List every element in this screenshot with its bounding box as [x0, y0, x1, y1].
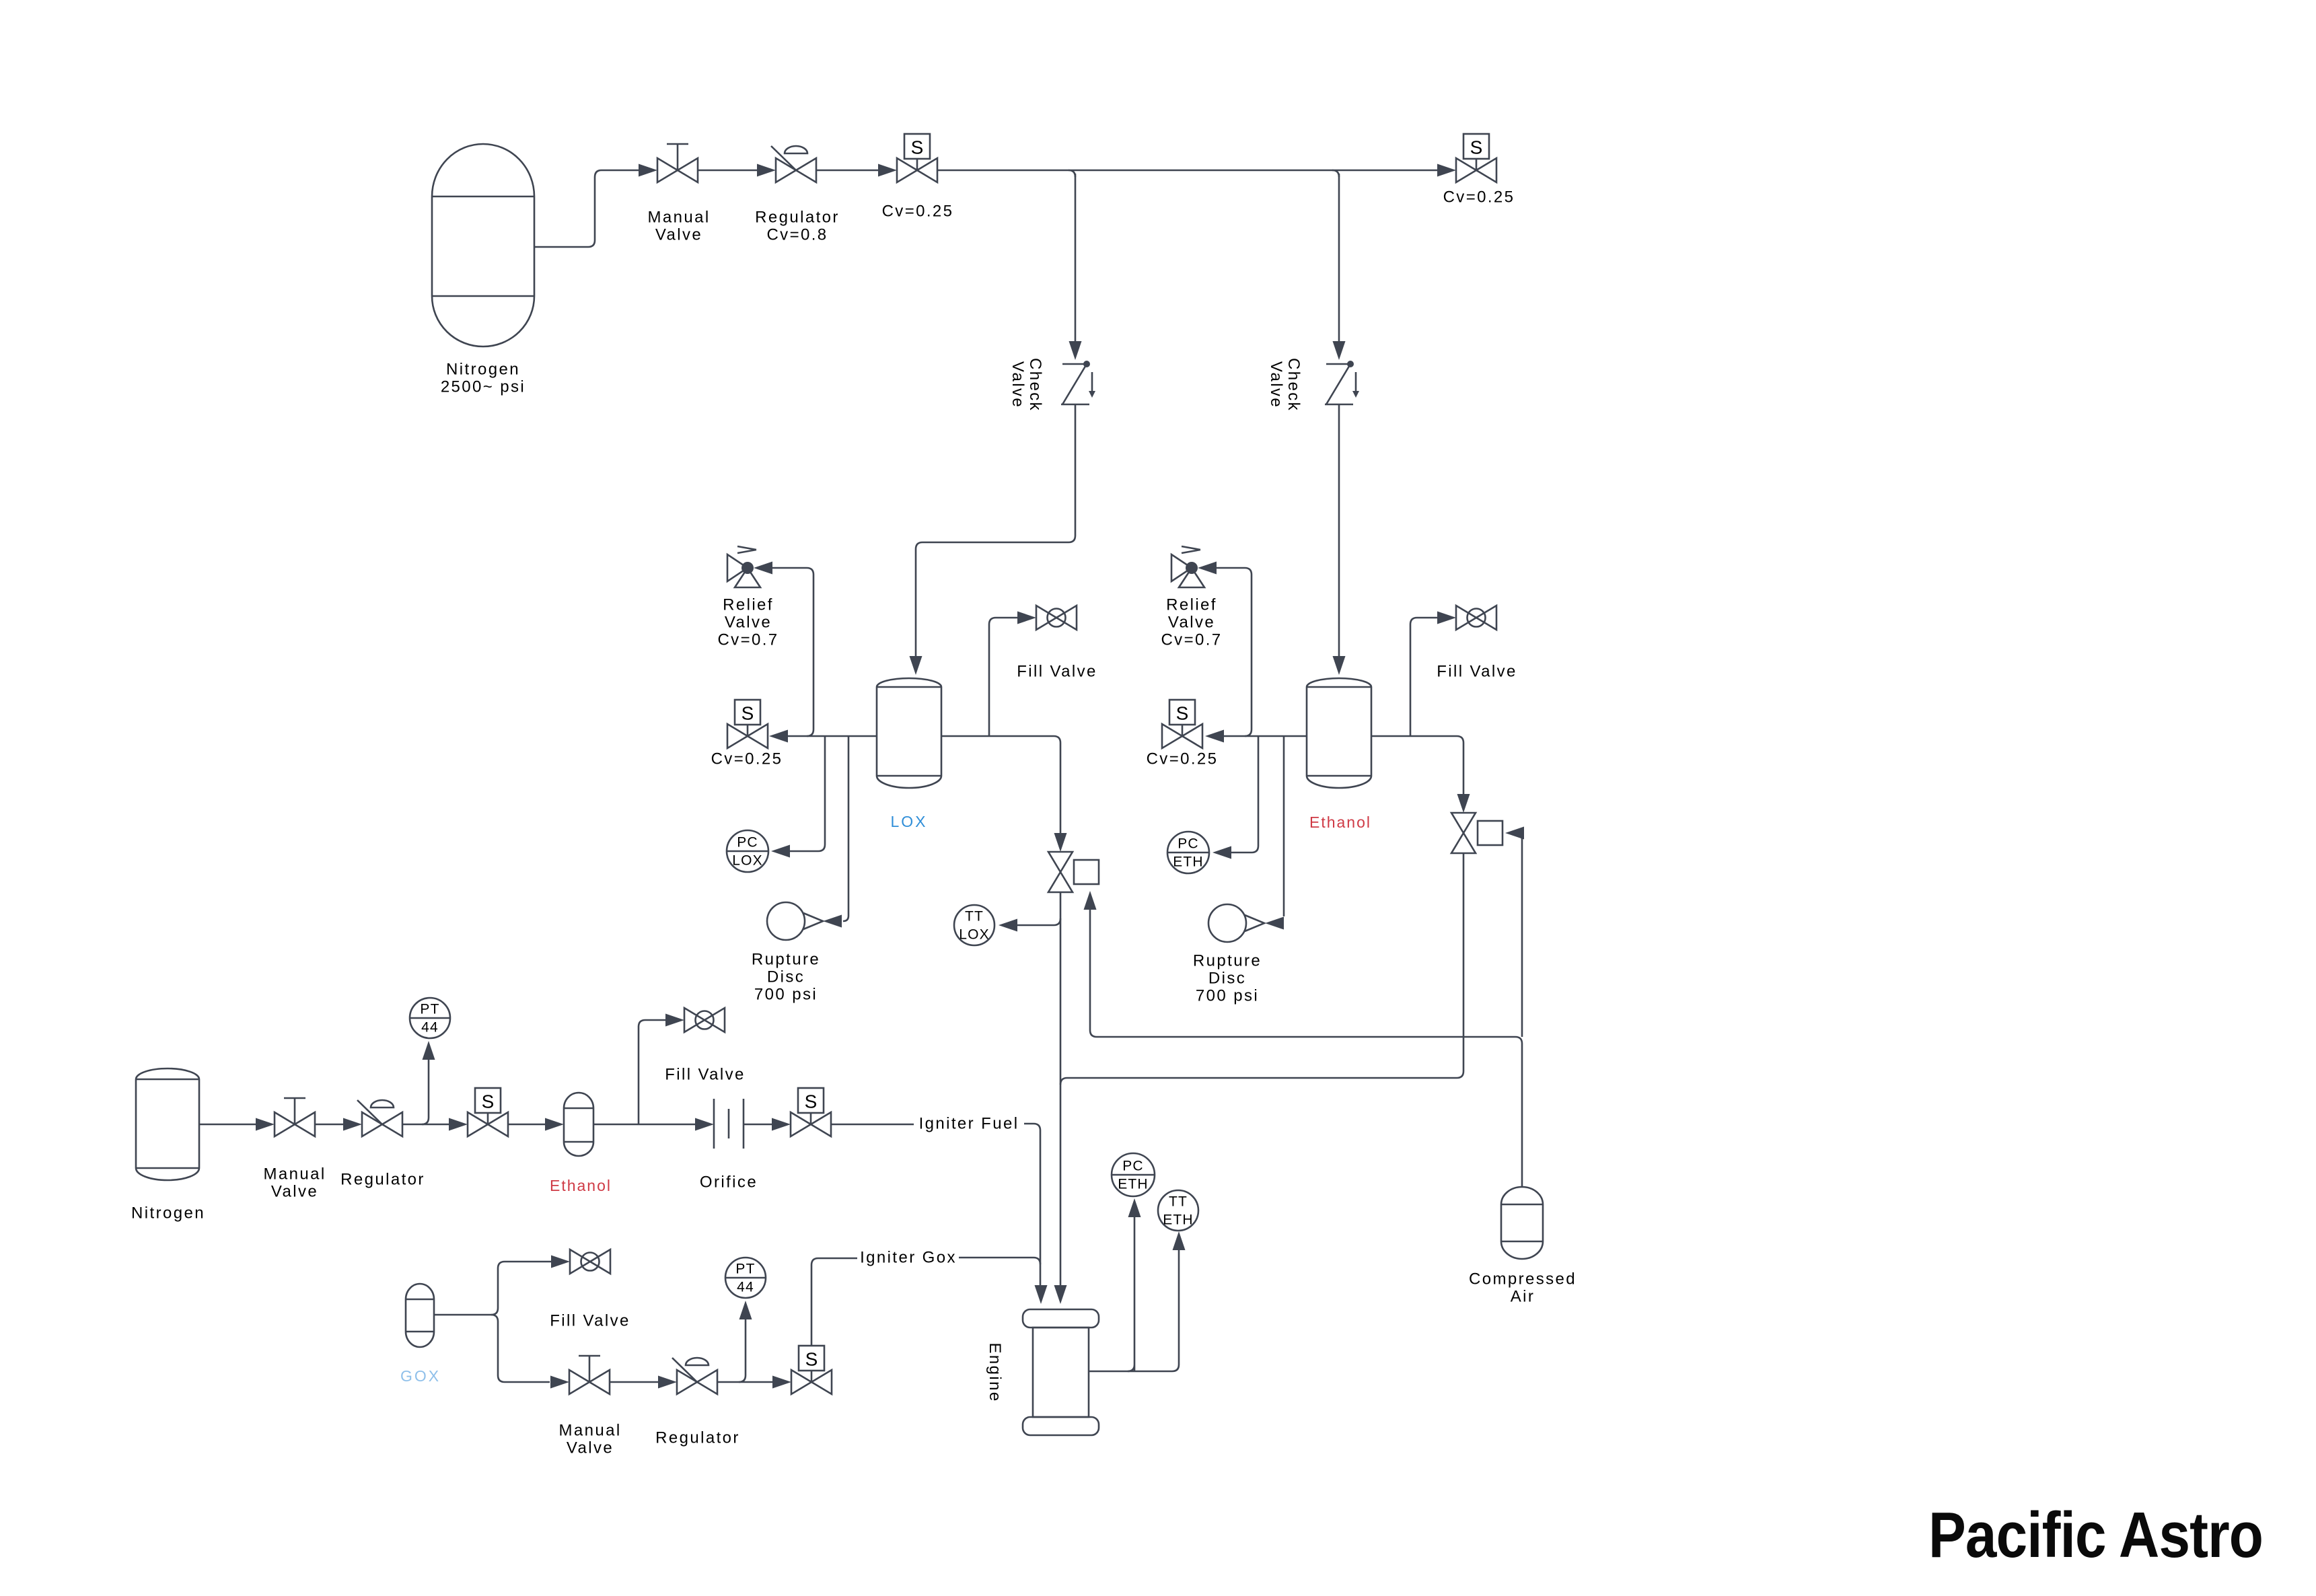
svg-text:Cv=0.8: Cv=0.8 — [766, 226, 828, 244]
svg-text:Valve: Valve — [725, 614, 772, 632]
svg-text:Nitrogen: Nitrogen — [131, 1204, 205, 1223]
svg-text:700 psi: 700 psi — [1196, 987, 1259, 1005]
svg-text:Cv=0.7: Cv=0.7 — [1161, 631, 1222, 649]
svg-text:S: S — [805, 1349, 818, 1370]
svg-text:Valve: Valve — [655, 226, 702, 244]
svg-text:PT: PT — [420, 1002, 439, 1017]
svg-text:Manual: Manual — [558, 1422, 621, 1440]
svg-text:44: 44 — [421, 1020, 439, 1036]
svg-text:Disc: Disc — [1208, 970, 1246, 988]
svg-text:TT: TT — [1169, 1194, 1188, 1210]
svg-text:44: 44 — [737, 1280, 754, 1295]
svg-text:Regulator: Regulator — [340, 1171, 425, 1189]
svg-text:Valve: Valve — [271, 1183, 318, 1201]
svg-text:Relief: Relief — [723, 596, 774, 614]
svg-text:Disc: Disc — [767, 968, 805, 986]
svg-text:S: S — [482, 1091, 495, 1112]
svg-text:S: S — [1176, 703, 1189, 724]
svg-text:Cv=0.25: Cv=0.25 — [1443, 188, 1515, 207]
svg-text:CheckValve: CheckValve — [1009, 358, 1044, 412]
svg-text:LOX: LOX — [959, 927, 990, 943]
svg-text:Relief: Relief — [1166, 596, 1217, 614]
svg-text:Regulator: Regulator — [755, 209, 840, 227]
svg-text:Regulator: Regulator — [655, 1429, 740, 1447]
svg-text:Fill Valve: Fill Valve — [1017, 663, 1097, 681]
svg-text:ETH: ETH — [1173, 855, 1204, 870]
svg-text:Rupture: Rupture — [752, 951, 820, 969]
svg-text:Valve: Valve — [1168, 614, 1215, 632]
svg-text:Nitrogen: Nitrogen — [446, 361, 520, 379]
svg-text:CheckValve: CheckValve — [1267, 358, 1303, 412]
svg-text:S: S — [1470, 137, 1483, 158]
svg-text:TT: TT — [965, 909, 984, 924]
svg-text:700 psi: 700 psi — [754, 986, 818, 1004]
svg-text:Igniter Gox: Igniter Gox — [860, 1249, 957, 1267]
svg-text:Fill Valve: Fill Valve — [1437, 663, 1517, 681]
svg-text:Manual: Manual — [647, 209, 710, 227]
svg-text:Ethanol: Ethanol — [1309, 813, 1371, 831]
svg-text:Engine: Engine — [986, 1342, 1004, 1402]
svg-text:Cv=0.25: Cv=0.25 — [1147, 750, 1219, 768]
svg-text:Orifice: Orifice — [700, 1173, 758, 1192]
svg-text:Rupture: Rupture — [1193, 952, 1262, 970]
svg-text:Igniter Fuel: Igniter Fuel — [919, 1115, 1019, 1133]
svg-text:GOX: GOX — [400, 1367, 441, 1385]
svg-text:2500~ psi: 2500~ psi — [441, 378, 526, 396]
svg-text:S: S — [805, 1091, 818, 1112]
svg-text:Ethanol: Ethanol — [550, 1177, 612, 1194]
svg-text:ETH: ETH — [1118, 1177, 1149, 1192]
svg-text:S: S — [911, 137, 924, 158]
svg-text:Fill Valve: Fill Valve — [665, 1066, 746, 1084]
svg-text:Manual: Manual — [263, 1165, 326, 1184]
svg-text:Compressed: Compressed — [1469, 1270, 1577, 1289]
svg-text:Pacific Astro: Pacific Astro — [1928, 1499, 2263, 1571]
svg-text:PC: PC — [1122, 1159, 1144, 1174]
svg-text:LOX: LOX — [890, 813, 927, 830]
svg-text:Cv=0.25: Cv=0.25 — [711, 750, 783, 768]
svg-text:PC: PC — [1178, 836, 1199, 852]
svg-text:ETH: ETH — [1163, 1212, 1194, 1228]
svg-text:Air: Air — [1511, 1288, 1535, 1306]
svg-text:PT: PT — [735, 1262, 755, 1277]
svg-text:Cv=0.7: Cv=0.7 — [717, 631, 779, 649]
svg-text:PC: PC — [737, 835, 758, 850]
svg-text:Valve: Valve — [567, 1439, 614, 1457]
svg-text:LOX: LOX — [732, 853, 763, 869]
svg-text:Fill Valve: Fill Valve — [550, 1312, 630, 1330]
svg-text:S: S — [741, 703, 754, 724]
svg-text:Cv=0.25: Cv=0.25 — [882, 203, 954, 221]
